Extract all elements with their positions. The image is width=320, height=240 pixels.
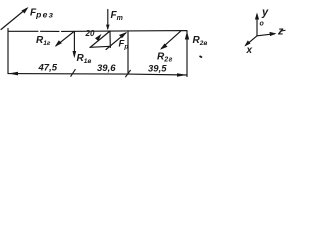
axis z arrowhead xyxy=(270,32,277,36)
force Frez arrow xyxy=(1,9,27,30)
axis x arrowhead xyxy=(244,40,250,46)
shaft beam outline xyxy=(8,29,187,77)
wire section line at x=128 xyxy=(127,31,129,74)
svg-text:39,5: 39,5 xyxy=(148,64,167,75)
reaction R1v arrowhead xyxy=(73,51,77,58)
dimension arrowhead right xyxy=(177,73,187,77)
svg-text:R2в: R2в xyxy=(193,35,208,47)
disc right side wire xyxy=(109,31,111,48)
speck xyxy=(200,56,203,58)
disc 20 offset arrow xyxy=(90,31,110,48)
reaction R1v arrow xyxy=(73,32,75,57)
reaction R2g arrowhead xyxy=(160,44,168,50)
svg-text:o: o xyxy=(260,21,265,28)
svg-text:y: y xyxy=(261,7,269,19)
dimension tick at x=75 xyxy=(71,70,75,77)
svg-text:R2г: R2г xyxy=(157,52,173,64)
axis y arrowhead xyxy=(255,13,259,20)
force Fr arrow xyxy=(106,33,126,50)
force Fr arrowhead xyxy=(119,32,127,38)
dimension arrowhead left xyxy=(9,72,19,76)
reaction R1g arrow xyxy=(56,32,74,46)
svg-text:20: 20 xyxy=(85,29,95,38)
axis z arrow xyxy=(257,34,275,36)
force Frez arrowhead xyxy=(22,7,29,14)
wire bottom edge / dimension line xyxy=(8,74,187,75)
reaction R1g arrowhead xyxy=(55,40,62,47)
svg-text:x: x xyxy=(246,45,253,56)
svg-text:Fр: Fр xyxy=(119,39,129,51)
svg-text:Fт: Fт xyxy=(111,10,123,22)
svg-text:R1в: R1в xyxy=(77,53,92,65)
axis y arrow xyxy=(256,15,258,36)
disc bottom edge wire xyxy=(90,46,111,47)
axis x arrow xyxy=(246,36,257,45)
force Ft arrow xyxy=(107,10,109,29)
svg-text:R1г: R1г xyxy=(36,35,51,47)
reaction R2g arrow xyxy=(162,31,182,49)
svg-text:Fрез: Fрез xyxy=(30,8,54,20)
svg-text:39,6: 39,6 xyxy=(97,63,116,74)
dimension tick at x=128 xyxy=(126,70,131,77)
svg-text:47,5: 47,5 xyxy=(38,63,58,74)
reaction R2v arrowhead xyxy=(185,32,189,40)
disc 20 offset arrowhead xyxy=(95,34,102,41)
force Ft arrowhead xyxy=(106,25,110,31)
